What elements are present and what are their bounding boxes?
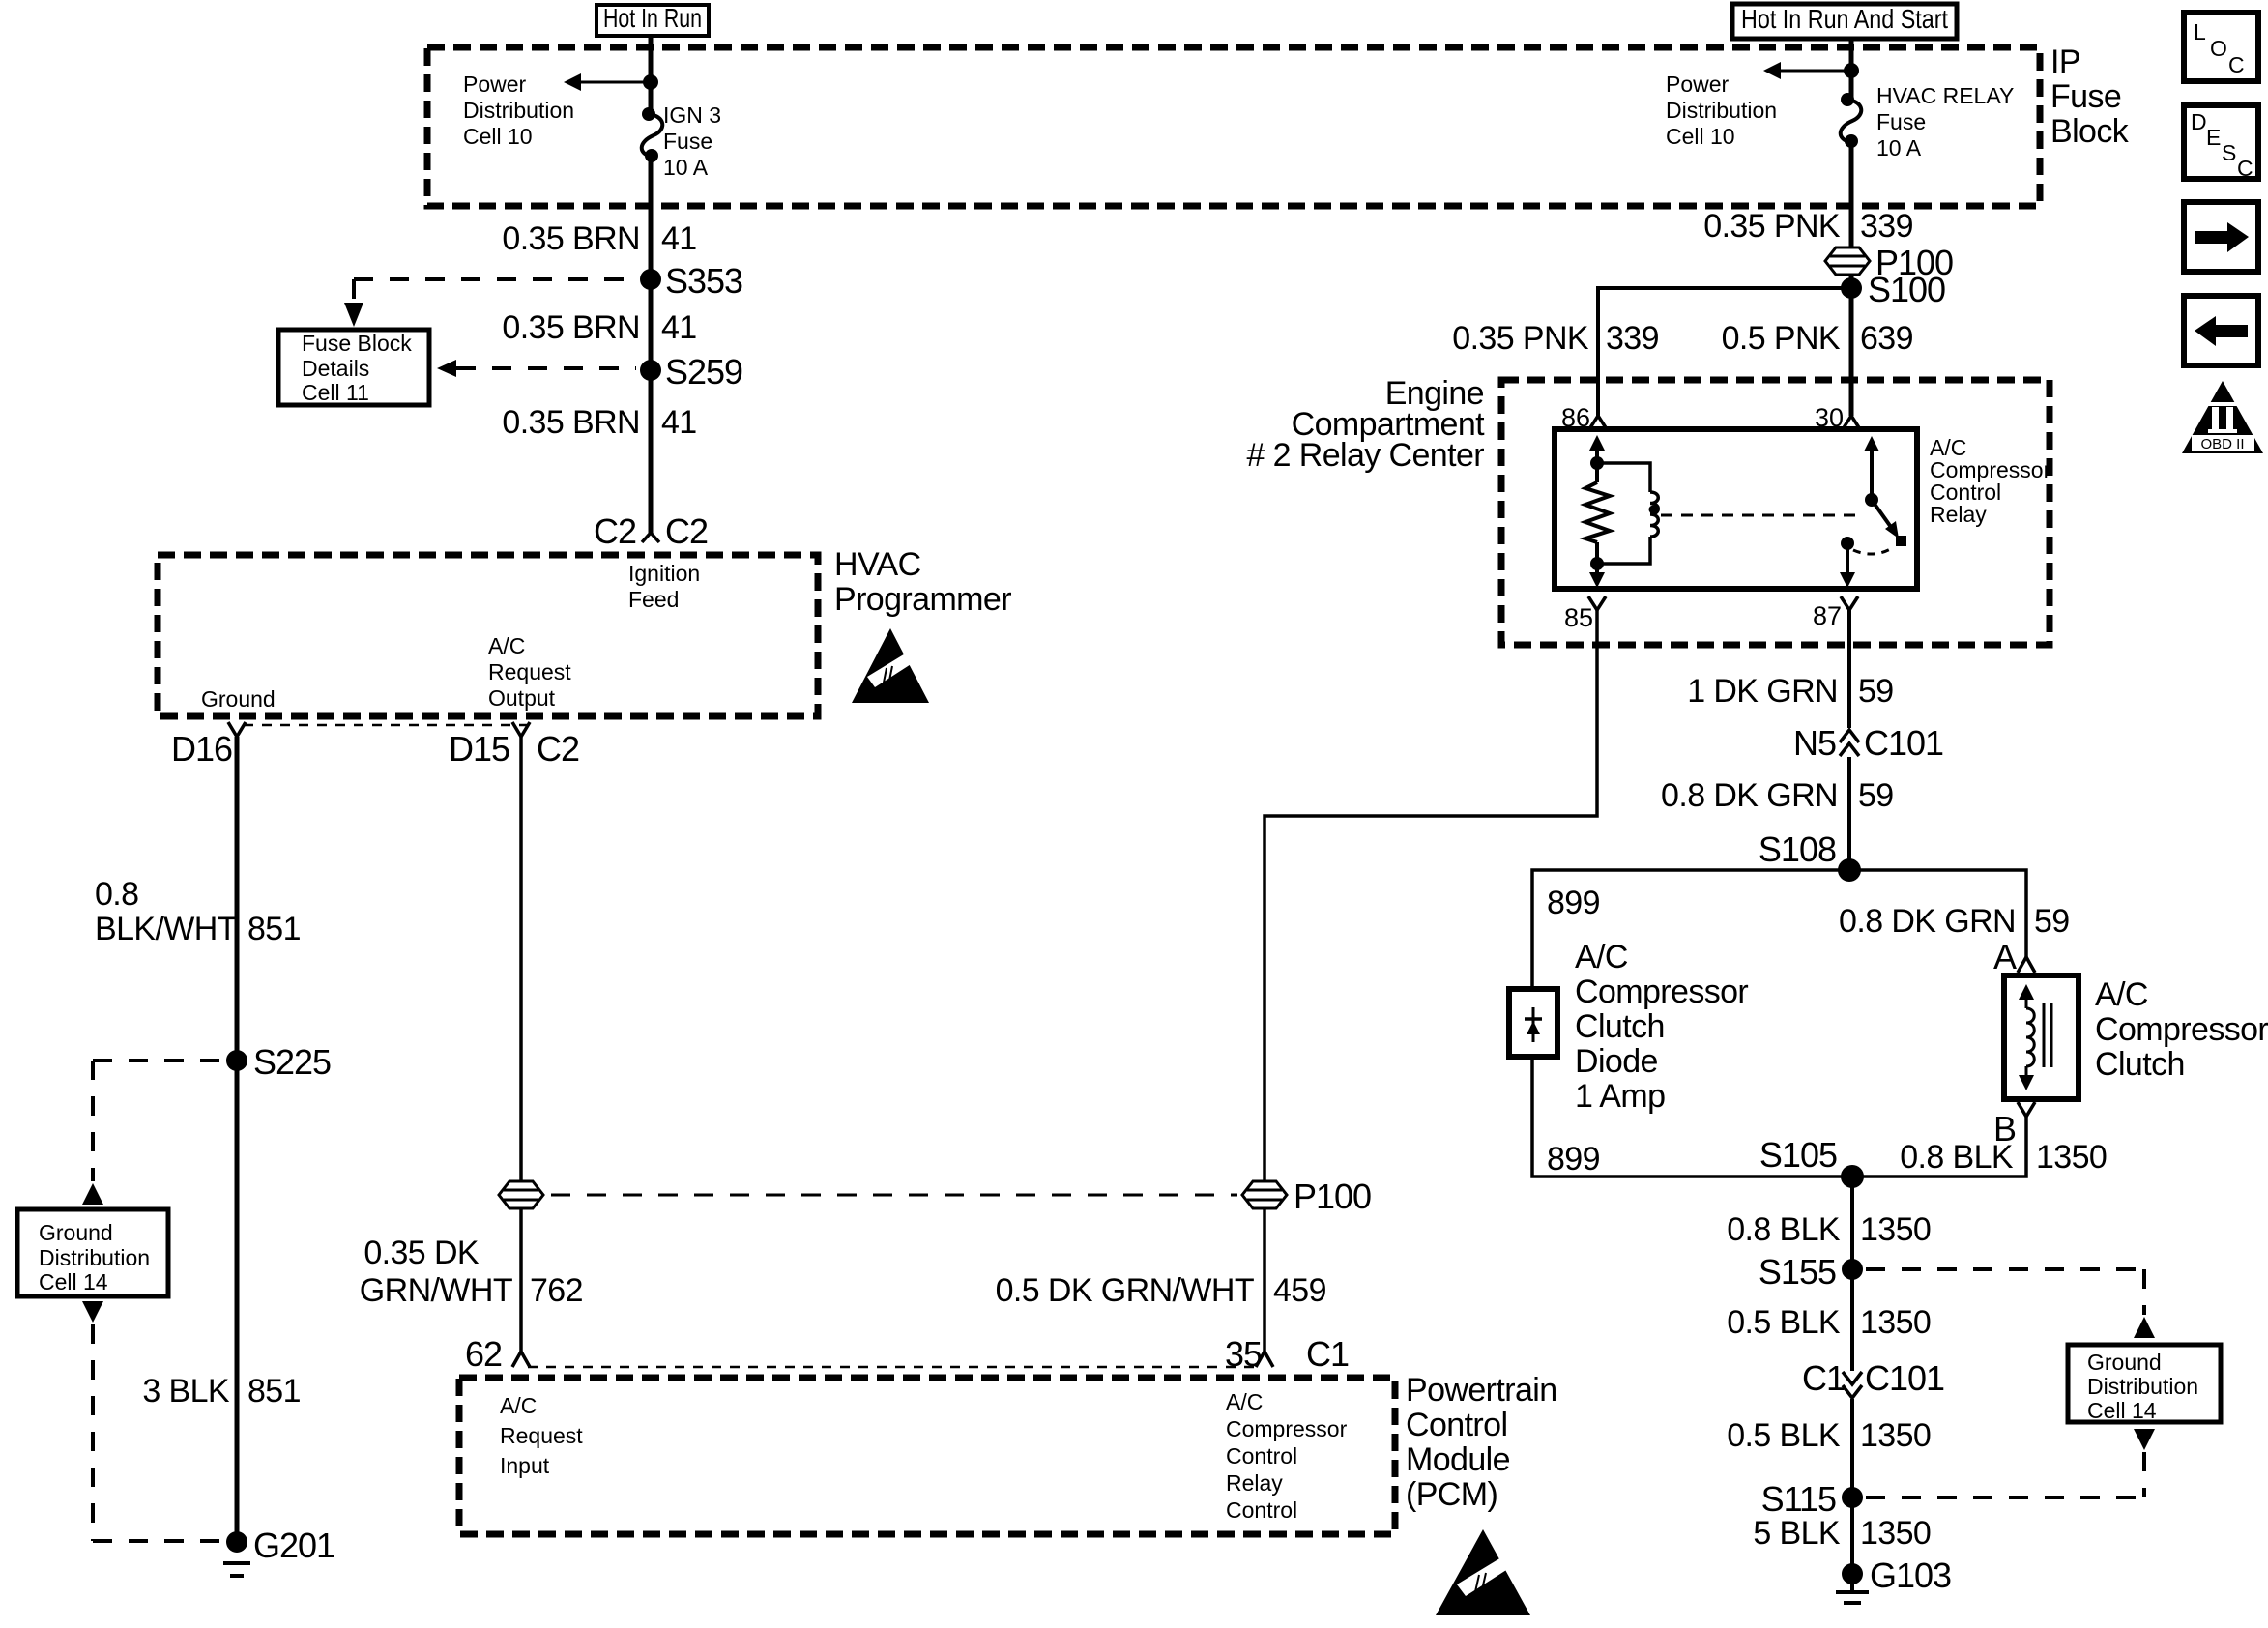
connector P100 right xyxy=(1242,1177,1371,1216)
svg-text:0.8 DK GRN: 0.8 DK GRN xyxy=(1839,903,2016,940)
svg-text:Output: Output xyxy=(488,685,556,711)
svg-text:HVAC: HVAC xyxy=(834,546,921,583)
node S155 xyxy=(1759,1252,1863,1292)
svg-text:Hot In Run And Start: Hot In Run And Start xyxy=(1741,4,1948,34)
svg-text:85: 85 xyxy=(1564,603,1593,632)
svg-text:Request: Request xyxy=(488,659,571,684)
label 1 DK GRN 59 xyxy=(1687,673,1893,710)
svg-text:851: 851 xyxy=(247,1373,301,1410)
svg-text:S259: S259 xyxy=(665,352,742,392)
svg-text:G103: G103 xyxy=(1870,1555,1951,1595)
svg-text:Diode: Diode xyxy=(1575,1043,1658,1080)
svg-text:Details: Details xyxy=(302,356,369,381)
svg-text:Module: Module xyxy=(1406,1441,1510,1478)
wire dashed from S353 to fuse block details xyxy=(344,279,636,327)
svg-text:Compressor: Compressor xyxy=(1226,1416,1348,1441)
label 0.5 BLK 1350 lower xyxy=(1727,1417,1931,1454)
svg-text:C2: C2 xyxy=(537,729,579,769)
svg-text:Control: Control xyxy=(1226,1443,1297,1468)
connector face dashed below HVAC box xyxy=(244,724,534,727)
svg-text:A/C: A/C xyxy=(488,633,525,658)
svg-text:62: 62 xyxy=(465,1334,502,1374)
node Hot In Run And Start xyxy=(1732,4,1957,39)
wire 3 BLK 851 xyxy=(235,1061,240,1542)
wire 5 BLK 1350 xyxy=(1850,1497,1854,1574)
node S259 xyxy=(640,352,742,392)
connector C1 C101 xyxy=(1802,1358,1944,1398)
label 0.35 PNK 339 xyxy=(1703,208,1913,245)
label 5 BLK 1350 xyxy=(1753,1515,1931,1552)
icon arrow right xyxy=(2184,202,2258,272)
svg-text:Distribution: Distribution xyxy=(39,1245,150,1270)
pin D16 xyxy=(171,722,246,769)
label 3 BLK 851 xyxy=(142,1373,301,1410)
svg-text:A: A xyxy=(1993,937,2017,976)
svg-text:899: 899 xyxy=(1547,1141,1600,1177)
A/C Compressor Clutch box xyxy=(2004,975,2079,1099)
svg-text:C: C xyxy=(2228,52,2245,77)
svg-text:Power: Power xyxy=(463,72,527,97)
svg-text:639: 639 xyxy=(1860,320,1913,357)
svg-text:0.35 BRN: 0.35 BRN xyxy=(502,220,640,257)
pin D15 xyxy=(449,722,579,769)
svg-text:Control: Control xyxy=(1226,1497,1297,1523)
svg-text:IGN 3: IGN 3 xyxy=(663,102,721,128)
svg-text:41: 41 xyxy=(661,404,697,441)
svg-text:0.5 DK GRN/WHT: 0.5 DK GRN/WHT xyxy=(996,1272,1254,1309)
node S105 xyxy=(1759,1135,1864,1188)
svg-text:Cell 10: Cell 10 xyxy=(463,124,533,149)
wire dashed ground distribution right to S115 xyxy=(1866,1429,2155,1497)
svg-text:Programmer: Programmer xyxy=(834,581,1011,618)
ESD symbol HVAC xyxy=(852,628,929,703)
connector N5 C101 xyxy=(1793,723,1943,763)
svg-text:D16: D16 xyxy=(171,729,232,769)
ESD symbol PCM xyxy=(1436,1529,1530,1615)
svg-text:0.35 BRN: 0.35 BRN xyxy=(502,404,640,441)
svg-text:S108: S108 xyxy=(1759,829,1836,869)
label Engine Compartment #2 Relay Center xyxy=(1246,375,1485,474)
svg-text:0.5 BLK: 0.5 BLK xyxy=(1727,1304,1841,1341)
wire S108 to clutch pin A xyxy=(1849,870,2026,957)
node Hot In Run xyxy=(596,3,709,36)
icon DESC xyxy=(2184,105,2258,181)
svg-text:BLK/WHT: BLK/WHT xyxy=(95,911,237,947)
svg-text:C: C xyxy=(2237,156,2253,181)
icon arrow left xyxy=(2184,296,2258,365)
connector C2 C2 xyxy=(594,511,708,551)
label 0.35 DK GRN/WHT 762 xyxy=(360,1235,583,1309)
pin A clutch xyxy=(1993,937,2035,976)
svg-text:IP: IP xyxy=(2050,44,2080,80)
wire dashed S225 to ground distribution xyxy=(82,1061,222,1205)
svg-text:0.5 BLK: 0.5 BLK xyxy=(1727,1417,1841,1454)
node S100 xyxy=(1841,270,1945,309)
svg-text:0.8 DK GRN: 0.8 DK GRN xyxy=(1661,777,1838,814)
svg-text:Ground: Ground xyxy=(2087,1350,2162,1375)
fuse HVAC RELAY 10A xyxy=(1841,93,1862,148)
svg-text:762: 762 xyxy=(530,1272,583,1309)
svg-text:59: 59 xyxy=(1858,777,1894,814)
svg-text:1350: 1350 xyxy=(1860,1304,1931,1341)
relay coil arrow up xyxy=(1589,435,1605,463)
svg-text:Fuse Block: Fuse Block xyxy=(302,331,412,356)
node junction left feed xyxy=(643,74,658,90)
svg-text:Relay: Relay xyxy=(1930,502,1987,527)
relay switch NC contact xyxy=(1841,537,1892,554)
label A/C Compressor Clutch Diode 1 Amp xyxy=(1575,939,1748,1115)
clutch coil with arrows xyxy=(2019,984,2051,1090)
svg-text:L: L xyxy=(2194,19,2206,44)
label Ignition Feed xyxy=(628,561,700,612)
label 0.8 DK GRN 59 (clutch) xyxy=(1839,903,2070,940)
svg-text:S: S xyxy=(2222,140,2236,165)
wire dashed from S259 to fuse block details xyxy=(437,360,636,377)
svg-text:Request: Request xyxy=(500,1423,583,1448)
wire dashed ground distribution to G201 xyxy=(82,1301,220,1541)
fuse IGN 3 10A xyxy=(642,107,663,162)
svg-text:G201: G201 xyxy=(253,1526,334,1565)
svg-text:(PCM): (PCM) xyxy=(1406,1476,1497,1513)
IP Fuse Block dashed box xyxy=(427,47,2040,206)
svg-text:D: D xyxy=(2191,109,2207,134)
node relay coil bottom xyxy=(1590,557,1604,570)
label 0.8 BLK 1350 (clutch) xyxy=(1900,1139,2107,1176)
relay coil arrow down xyxy=(1589,564,1605,588)
Fuse Block Details Cell 11 box xyxy=(278,330,429,405)
svg-text:A/C: A/C xyxy=(2095,976,2148,1013)
label Power Distribution Cell 10 (left) xyxy=(463,72,574,149)
label 0.35 BRN 41 (1) xyxy=(502,220,696,257)
svg-text:899: 899 xyxy=(1547,885,1600,921)
icon LOC xyxy=(2184,13,2258,81)
svg-text:Distribution: Distribution xyxy=(1666,98,1777,123)
relay switch arm xyxy=(1872,500,1906,546)
svg-text:A/C: A/C xyxy=(1575,939,1628,975)
wire 1 DK GRN 59 xyxy=(1847,610,1851,728)
svg-text:Compressor: Compressor xyxy=(1575,974,1748,1010)
ground G103 xyxy=(1836,1555,1951,1603)
wire dashed S155 to ground distribution right xyxy=(1866,1269,2155,1338)
pin 62 xyxy=(465,1334,530,1374)
svg-text:459: 459 xyxy=(1273,1272,1326,1309)
wire 0.8 BLK/WHT 851 xyxy=(235,737,240,1061)
svg-text:GRN/WHT: GRN/WHT xyxy=(360,1272,512,1309)
svg-text:Power: Power xyxy=(1666,72,1730,97)
svg-text:Compressor: Compressor xyxy=(2095,1011,2268,1048)
wire 0.8 BLK 1350 xyxy=(1850,1177,1854,1269)
svg-text:1 Amp: 1 Amp xyxy=(1575,1078,1665,1115)
svg-text:C1: C1 xyxy=(1802,1358,1845,1398)
svg-text:Ground: Ground xyxy=(201,686,276,712)
svg-text:3 BLK: 3 BLK xyxy=(142,1373,230,1410)
svg-text:# 2 Relay Center: # 2 Relay Center xyxy=(1246,437,1484,474)
svg-text:C2: C2 xyxy=(665,511,708,551)
svg-text:Hot In Run: Hot In Run xyxy=(603,3,702,33)
svg-text:N5: N5 xyxy=(1793,723,1836,763)
connector P100 main xyxy=(1825,243,1953,282)
connector P100 left xyxy=(499,1181,543,1208)
IP Fuse Block label xyxy=(2050,44,2130,150)
label 0.5 DK GRN/WHT 459 xyxy=(996,1272,1326,1309)
svg-text:D15: D15 xyxy=(449,729,509,769)
svg-text:HVAC RELAY: HVAC RELAY xyxy=(1876,83,2014,108)
svg-text:Control: Control xyxy=(1406,1407,1507,1443)
svg-text:1350: 1350 xyxy=(1860,1417,1931,1454)
svg-text:Fuse: Fuse xyxy=(663,129,712,154)
svg-text:Cell 10: Cell 10 xyxy=(1666,124,1735,149)
relay box A/C Compressor Control Relay xyxy=(1555,429,1917,589)
svg-text:Cell 14: Cell 14 xyxy=(2087,1398,2157,1423)
svg-text:Cell 14: Cell 14 xyxy=(39,1269,108,1294)
svg-text:S353: S353 xyxy=(665,261,742,301)
label IGN 3 Fuse 10 A xyxy=(663,102,721,180)
label 0.5 BLK 1350 upper xyxy=(1727,1304,1931,1341)
pin 35 C1 xyxy=(1225,1334,1349,1374)
svg-text:851: 851 xyxy=(247,911,301,947)
wire 0.35 PNK 339 xyxy=(1849,141,1854,416)
svg-text:339: 339 xyxy=(1860,208,1913,245)
svg-text:P100: P100 xyxy=(1294,1177,1371,1216)
svg-text:Block: Block xyxy=(2050,113,2130,150)
HVAC Programmer dashed box xyxy=(158,555,818,716)
svg-text:0.8: 0.8 xyxy=(95,876,138,913)
svg-text:1350: 1350 xyxy=(1860,1515,1931,1552)
pin 86 xyxy=(1561,403,1607,432)
svg-text:0.35 PNK: 0.35 PNK xyxy=(1703,208,1841,245)
svg-text:0.35 PNK: 0.35 PNK xyxy=(1452,320,1589,357)
svg-text:5 BLK: 5 BLK xyxy=(1753,1515,1841,1552)
wire clutch circuit loop xyxy=(1532,870,2026,1177)
wire left feed xyxy=(649,36,654,114)
svg-text:1 DK GRN: 1 DK GRN xyxy=(1687,673,1838,710)
node relay coil top xyxy=(1590,456,1604,470)
svg-text:A/C: A/C xyxy=(500,1393,537,1418)
label HVAC Programmer xyxy=(834,546,1011,618)
diode A/C compressor clutch diode xyxy=(1509,989,1557,1057)
wire relay pin 85 to PCM pin 35 xyxy=(1265,610,1597,1352)
svg-text:S100: S100 xyxy=(1868,270,1945,309)
wire dashed relay actuation xyxy=(1661,514,1861,517)
svg-text:Clutch: Clutch xyxy=(1575,1008,1665,1045)
wire A/C request output (D15 to P100) xyxy=(519,737,523,1352)
svg-text:S105: S105 xyxy=(1759,1135,1837,1175)
wire 0.5 BLK 1350 upper xyxy=(1850,1269,1854,1371)
icon OBD II xyxy=(2182,381,2263,453)
pin 87 xyxy=(1813,596,1858,630)
Ground Distribution Cell 14 box (left) xyxy=(17,1209,168,1296)
svg-text:C101: C101 xyxy=(1865,1358,1944,1398)
ground G201 xyxy=(223,1526,334,1576)
label 0.35 BRN 41 (3) xyxy=(502,404,696,441)
svg-text:0.35 BRN: 0.35 BRN xyxy=(502,309,640,346)
connector face dashed above PCM box xyxy=(528,1366,1257,1369)
node S108 xyxy=(1759,829,1861,882)
wire 0.5 BLK 1350 lower xyxy=(1850,1399,1854,1497)
pin 30 xyxy=(1815,403,1860,432)
svg-text:41: 41 xyxy=(661,309,697,346)
svg-text:Fuse: Fuse xyxy=(2050,78,2121,115)
inductor relay coil xyxy=(1597,463,1658,564)
svg-text:C2: C2 xyxy=(594,511,636,551)
svg-text:10 A: 10 A xyxy=(663,155,709,180)
resistor relay xyxy=(1585,463,1610,564)
wire 0.8 DK GRN 59 xyxy=(1847,757,1851,870)
svg-text:Feed: Feed xyxy=(628,587,679,612)
svg-text:Distribution: Distribution xyxy=(463,98,574,123)
svg-text:S155: S155 xyxy=(1759,1252,1836,1292)
label 0.8 DK GRN 59 xyxy=(1661,777,1894,814)
wire right feed xyxy=(1849,39,1854,98)
Ground Distribution Cell 14 box (right) xyxy=(2068,1345,2221,1423)
node S115 xyxy=(1761,1479,1863,1519)
label 0.8 BLK 1350 xyxy=(1727,1211,1931,1248)
relay switch arrow down to 87 xyxy=(1840,543,1855,588)
svg-text:59: 59 xyxy=(1858,673,1894,710)
svg-text:Cell 11: Cell 11 xyxy=(302,380,369,405)
svg-text:1350: 1350 xyxy=(2036,1139,2107,1176)
label A/C Compressor Clutch xyxy=(2095,976,2268,1083)
wire 0.35 BRN 41 segment 2 xyxy=(649,279,654,370)
wire S100 branch to relay pin 86 xyxy=(1598,288,1851,416)
svg-text:A/C: A/C xyxy=(1226,1389,1263,1414)
Engine Compartment #2 Relay Center dashed box xyxy=(1501,380,2050,645)
label 0.35 PNK 339 (branch) xyxy=(1452,320,1659,357)
svg-text:0.35 DK: 0.35 DK xyxy=(363,1235,480,1271)
label HVAC RELAY Fuse 10 A xyxy=(1876,83,2014,160)
node junction right feed xyxy=(1844,63,1859,78)
svg-text:Input: Input xyxy=(500,1453,550,1478)
label 0.5 PNK 639 xyxy=(1722,320,1913,357)
relay switch common arrow xyxy=(1864,436,1879,507)
svg-text:Clutch: Clutch xyxy=(2095,1046,2185,1083)
label A/C Compressor Control Relay Control xyxy=(1226,1389,1348,1523)
svg-text:339: 339 xyxy=(1606,320,1659,357)
node S225 xyxy=(226,1042,331,1082)
svg-text:59: 59 xyxy=(2034,903,2070,940)
wire 0.35 BRN 41 segment 1 xyxy=(649,156,654,279)
svg-text:S115: S115 xyxy=(1761,1479,1836,1519)
wire dashed P100 bulkhead line xyxy=(551,1194,1237,1197)
label Powertrain Control Module (PCM) xyxy=(1406,1372,1557,1513)
PCM dashed box xyxy=(459,1378,1395,1534)
svg-text:Distribution: Distribution xyxy=(2087,1374,2198,1399)
wire 0.35 BRN 41 segment 3 xyxy=(649,370,654,533)
svg-text:Relay: Relay xyxy=(1226,1470,1283,1496)
svg-text:S225: S225 xyxy=(253,1042,331,1082)
wire arrow to power distribution left xyxy=(564,73,651,91)
label Power Distribution Cell 10 (right) xyxy=(1666,72,1777,149)
svg-text:Fuse: Fuse xyxy=(1876,109,1926,134)
label A/C Compressor Control Relay xyxy=(1930,435,2051,527)
svg-text:1350: 1350 xyxy=(1860,1211,1931,1248)
label A/C Request Output xyxy=(488,633,571,711)
label A/C Request Input xyxy=(500,1393,583,1478)
svg-text:OBD II: OBD II xyxy=(2200,436,2244,452)
svg-text:O: O xyxy=(2210,36,2227,61)
svg-text:0.5 PNK: 0.5 PNK xyxy=(1722,320,1841,357)
node S353 xyxy=(640,261,742,301)
label 0.35 BRN 41 (2) xyxy=(502,309,696,346)
svg-text:C101: C101 xyxy=(1864,723,1943,763)
svg-text:41: 41 xyxy=(661,220,697,257)
svg-text:10 A: 10 A xyxy=(1876,135,1922,160)
svg-text:Ground: Ground xyxy=(39,1220,113,1245)
pin 85 xyxy=(1564,596,1606,632)
svg-text:0.8 BLK: 0.8 BLK xyxy=(1900,1139,2014,1176)
svg-text:87: 87 xyxy=(1813,601,1842,630)
svg-text:Ignition: Ignition xyxy=(628,561,700,586)
svg-text:Powertrain: Powertrain xyxy=(1406,1372,1557,1409)
svg-text:0.8 BLK: 0.8 BLK xyxy=(1727,1211,1841,1248)
pin B clutch xyxy=(1993,1102,2035,1148)
label 0.8 BLK/WHT 851 xyxy=(95,876,301,947)
svg-text:E: E xyxy=(2206,125,2221,150)
svg-text:C1: C1 xyxy=(1306,1334,1349,1374)
wire arrow to power distribution right xyxy=(1763,62,1851,79)
